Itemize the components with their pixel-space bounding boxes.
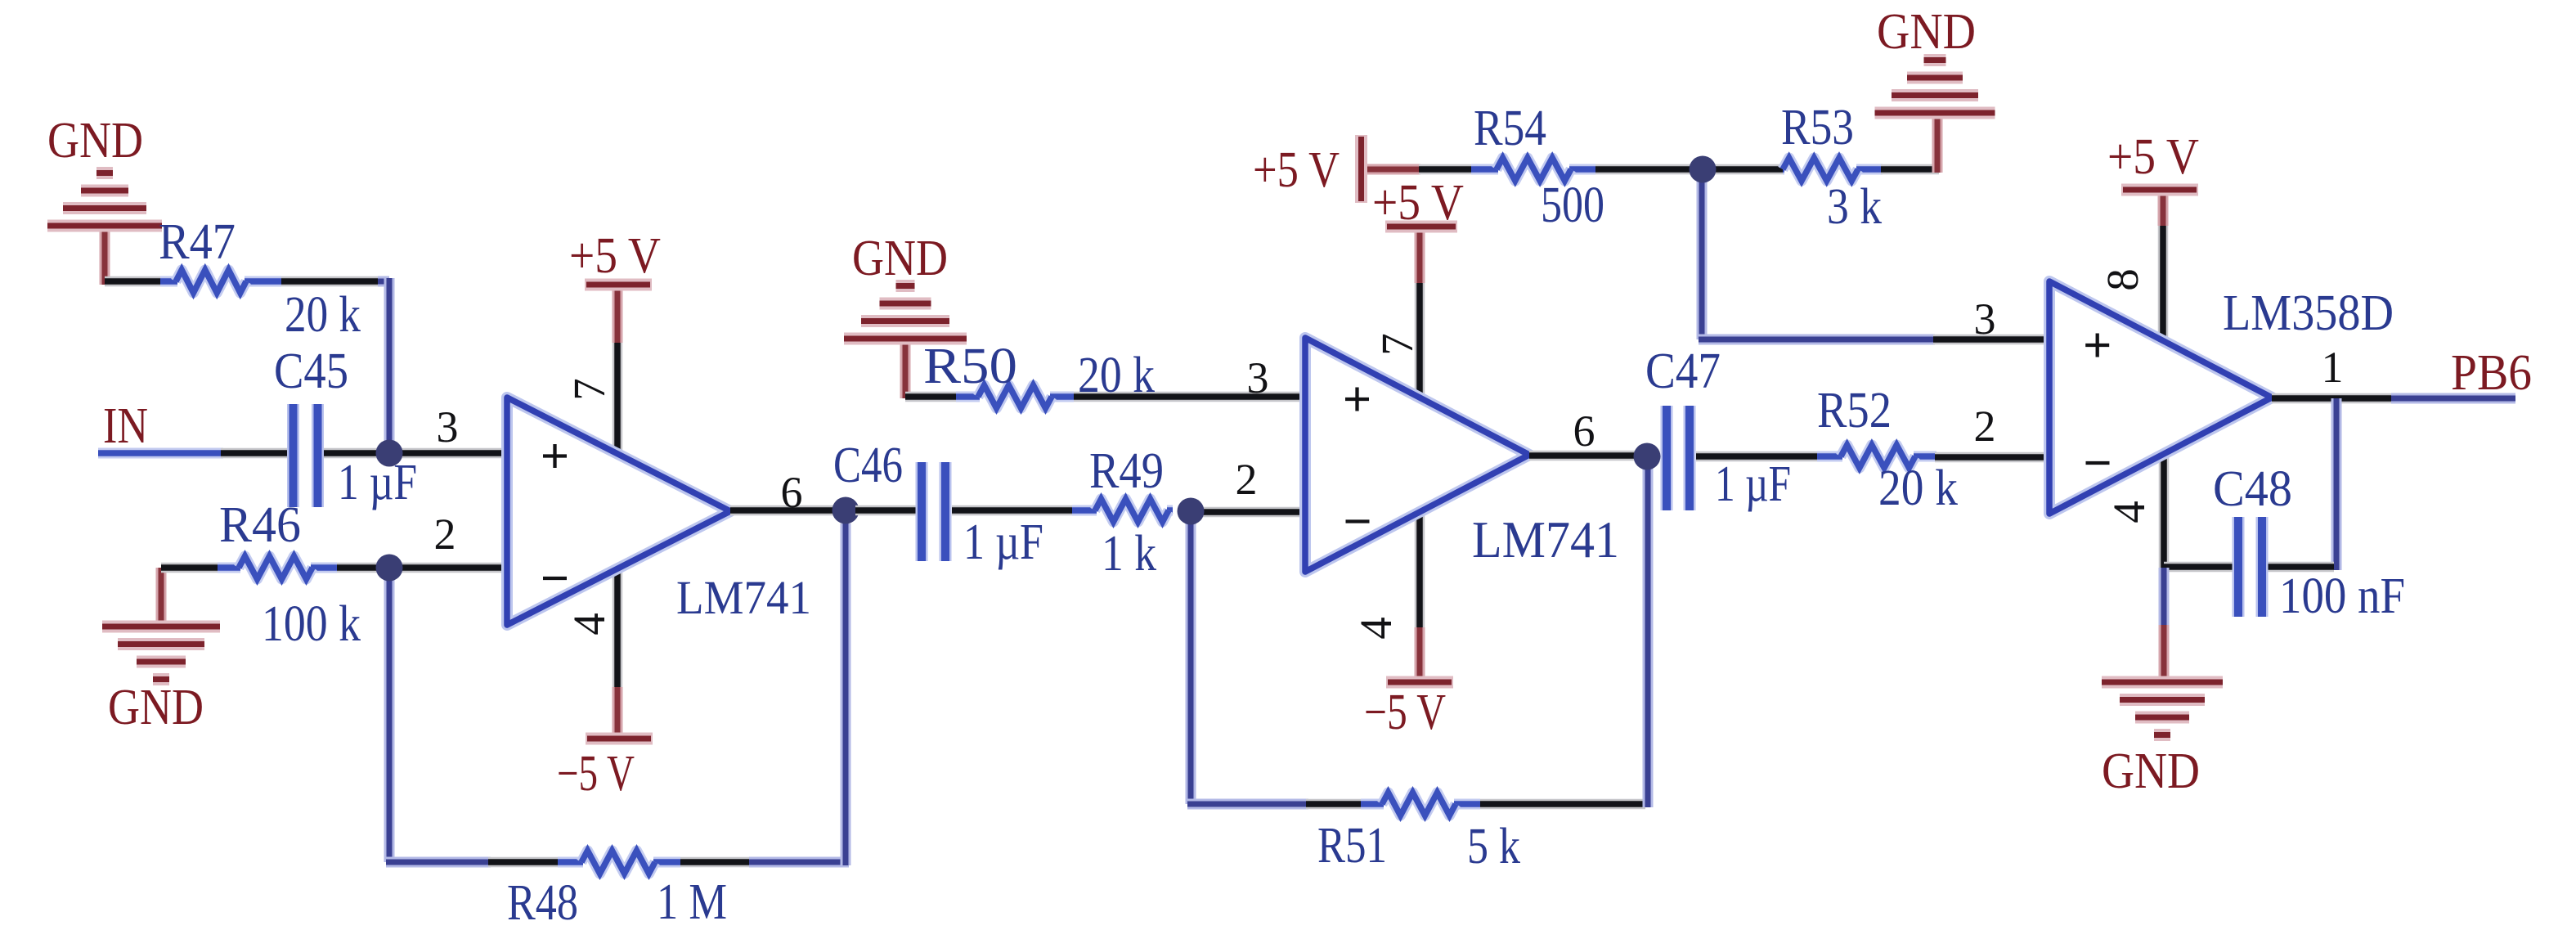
svg-text:R51: R51 [1317,818,1387,874]
svg-text:7: 7 [564,378,614,401]
capacitor C46 [922,462,945,561]
svg-text:1 µF: 1 µF [963,514,1043,570]
wire -5V stem U1 pin4 [613,569,623,737]
svg-text:6: 6 [781,468,803,517]
svg-text:2: 2 [1236,455,1258,504]
node R54/R53 junction [1690,156,1717,183]
ground GND (above R50) [844,286,967,399]
svg-text:500: 500 [1541,177,1604,233]
svg-text:3 k: 3 k [1827,179,1882,235]
resistor R52 [1817,445,1936,468]
svg-text:3: 3 [437,402,459,452]
wire R49 node to U2 pin2 [1202,507,1307,518]
svg-text:R49: R49 [1089,443,1164,499]
node R49/U2 junction [1178,498,1205,525]
wire feedback U2 left vertical [1186,522,1196,804]
op-amp U3 LM358D [2049,281,2272,514]
svg-text:3: 3 [1247,353,1269,402]
svg-text:100 nF: 100 nF [2279,568,2405,624]
svg-text:+5 V: +5 V [1253,142,1340,198]
op-amp U1 LM741 [507,398,730,625]
ground GND (after R53) [1875,61,1995,173]
svg-text:R47: R47 [159,214,236,270]
ground GND (input top-left) [47,173,162,285]
resistor R47 [160,270,281,293]
svg-text:GND: GND [2102,744,2200,799]
resistor R49 [1072,499,1173,522]
svg-text:100 k: 100 k [262,596,361,652]
wire feedback left vertical (node2 to R48) [384,577,395,862]
wire R54 row [1419,164,1692,175]
wire +5V stem U3 pin8 [2158,195,2169,340]
node U1 pin2 junction [376,555,403,582]
wire pin3 stub U1 [401,448,509,459]
minus mark U3 [2086,461,2110,465]
node U2 output junction [1634,443,1661,470]
minus mark U2 [1346,519,1370,523]
svg-text:C48: C48 [2213,461,2292,517]
svg-text:−5 V: −5 V [1364,685,1446,740]
svg-text:C46: C46 [833,438,903,493]
capacitor C47 [1667,406,1690,510]
svg-text:8: 8 [2098,268,2147,291]
plus mark U2 [1345,398,1369,401]
net IN wire [98,448,287,459]
svg-text:C45: C45 [274,344,348,399]
wire node F down to U3 pin3 [1699,169,2051,339]
svg-text:PB6: PB6 [2451,345,2532,401]
wire R48 row [386,857,849,868]
capacitor C48 [2238,517,2262,617]
wire R46 row [161,563,378,573]
svg-text:GND: GND [852,231,948,286]
capacitor C45 [294,404,318,507]
svg-text:R53: R53 [1781,100,1854,155]
svg-text:20 k: 20 k [285,287,361,343]
wire C46 to R49 [855,505,1074,516]
wire U3 output [2272,393,2515,404]
power +5V bar (U2) [1385,221,1457,233]
svg-text:LM741: LM741 [1472,511,1619,568]
plus mark U1 [543,454,567,457]
svg-text:LM741: LM741 [676,571,811,624]
svg-text:1 k: 1 k [1102,526,1156,582]
wire C47 to R52 [1696,452,1819,462]
minus mark U1 [543,577,567,580]
wire C45 to node [324,448,378,459]
wire +5V stem U1 pin7 [613,288,623,452]
ground GND (below R46) [102,568,220,680]
svg-text:1 µF: 1 µF [1715,456,1791,512]
svg-text:+5 V: +5 V [1372,175,1464,231]
svg-text:5 k: 5 k [1467,819,1520,874]
wire R47 row [105,276,382,287]
svg-text:3: 3 [1974,294,1996,344]
wire R50 row [905,392,1307,402]
svg-text:R54: R54 [1474,101,1546,156]
svg-text:1 µF: 1 µF [338,455,417,510]
svg-text:C47: C47 [1645,344,1721,399]
wire U3 pin4 down [2159,452,2170,570]
svg-text:R50: R50 [923,339,1017,394]
wire +5V stem U2 pin7 [1415,230,1425,398]
power +5V bar (U3) [2121,184,2198,196]
wire R51 row [1187,799,1645,810]
svg-text:1 M: 1 M [657,874,727,926]
wire C48 row [2164,562,2334,573]
wire pin2 stub U1 [401,563,509,573]
resistor R46 [218,556,337,579]
svg-text:GND: GND [1877,4,1976,60]
svg-text:R52: R52 [1817,383,1892,438]
svg-text:4: 4 [564,613,614,636]
ground GND (below C48) [2102,568,2223,735]
svg-text:+5 V: +5 V [2107,129,2199,185]
svg-text:4: 4 [1351,617,1401,640]
svg-text:1: 1 [2322,343,2344,392]
svg-text:+5 V: +5 V [569,228,661,284]
resistor R53 [1783,158,1883,181]
svg-text:6: 6 [1573,407,1595,456]
node U1 pin3 junction [376,440,403,467]
wire C48 branch vertical [2331,398,2342,570]
wire R52 to U3 pin2 [1935,452,2051,463]
svg-text:−5 V: −5 V [557,746,635,802]
resistor R50 [956,385,1074,408]
wire R53 to ground [1881,164,1939,175]
svg-text:IN: IN [103,398,148,454]
power +5V rotated bar (R54) [1362,164,1420,175]
power -5V bar (U2) [1386,676,1453,689]
wire -5V stem U2 pin4 [1415,512,1425,677]
svg-text:GND: GND [108,680,204,735]
op-amp U2 LM741 [1305,338,1529,572]
svg-text:20 k: 20 k [1078,348,1155,403]
resistor R54 [1471,158,1595,181]
wire feedback U2 right vertical [1643,466,1654,807]
svg-text:7: 7 [1372,333,1422,356]
svg-text:LM358D: LM358D [2223,285,2394,341]
svg-text:2: 2 [434,510,456,559]
wire U1 output [730,505,836,516]
wire navy corner R47 to node 3 [378,278,389,447]
svg-text:R46: R46 [219,497,301,553]
resistor R48 [558,851,680,874]
wire node to R53 [1714,164,1784,175]
wire U2 output [1529,451,1637,461]
svg-text:2: 2 [1974,402,1996,451]
resistor R51 [1361,793,1480,815]
svg-text:4: 4 [2104,501,2154,523]
wire feedback right vertical (R48 to node C46) [841,523,851,865]
power +5V bar (U1) [585,279,652,291]
svg-text:20 k: 20 k [1878,461,1958,516]
node U1 output junction [832,497,859,524]
power -5V bar (U1) [586,733,653,745]
svg-text:GND: GND [47,113,143,168]
svg-text:R48: R48 [507,875,578,926]
plus mark U3 [2085,344,2109,347]
